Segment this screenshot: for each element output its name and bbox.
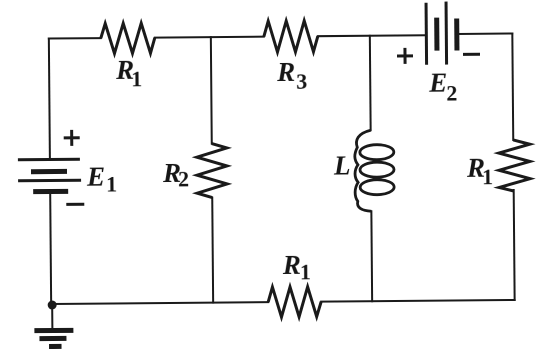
svg-text:1: 1 [482,164,493,189]
svg-text:R: R [282,250,301,280]
minus sign E1 [66,203,84,206]
wire bottom left segment [52,302,268,304]
resistor R2 middle branch [197,143,227,197]
label R1 top-left [115,55,142,92]
label R1 right [466,153,493,190]
resistor R1 bottom [268,287,321,317]
svg-text:1: 1 [131,66,142,91]
svg-text:2: 2 [178,166,189,191]
label E2 [428,67,457,105]
wire L branch lower [370,211,373,301]
wire ground stem [51,305,53,329]
plus sign E2 [397,48,413,64]
battery E1 left [18,159,81,192]
svg-text:2: 2 [446,80,457,105]
wire L branch upper [369,36,372,130]
wire R2 branch upper [210,37,213,143]
wire top-left segment [49,37,101,39]
battery E2 top-right [426,1,457,64]
wire top middle segment (R1 to R3) [155,36,264,39]
ground [34,330,73,346]
label R1 bottom [282,250,311,285]
label R2 [162,158,189,192]
label R3 [276,57,307,94]
svg-text:L: L [333,150,351,180]
wire left lower (E1 to ground node) [49,192,52,305]
wire left upper (corner to E1) [49,39,50,158]
plus sign E1 [64,130,80,146]
resistor R1 top-left [101,23,155,53]
wire top segment (R3 to E2) [318,34,426,37]
label L [333,150,351,180]
svg-text:1: 1 [300,259,311,284]
inductor L [355,130,395,211]
wire top-right segment (E2 to corner) [458,32,512,34]
resistor R3 top-middle [264,21,318,52]
wire right upper (corner to R1) [511,33,514,139]
svg-text:E: E [428,68,447,98]
wire bottom right segment [321,300,514,302]
node junction dot bottom-left [48,300,57,309]
wire right lower (R1 to corner) [513,190,516,300]
minus sign E2 [463,53,480,56]
wire R2 branch lower [211,198,214,303]
resistor R1 right branch [499,140,530,191]
svg-text:E: E [86,162,105,192]
svg-text:3: 3 [296,69,307,94]
svg-text:1: 1 [106,171,117,196]
svg-text:R: R [276,57,295,87]
label E1 [86,161,117,196]
